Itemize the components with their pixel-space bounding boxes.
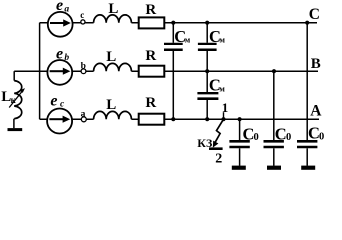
svg-text:C: C — [309, 6, 320, 23]
svg-text:e: e — [56, 46, 63, 63]
inductor L row C — [94, 15, 132, 23]
capacitor Cm C-A vertical top — [172, 23, 174, 43]
terminal 2 bar — [209, 147, 223, 150]
capacitor Cm C-B plates — [198, 43, 217, 45]
junction line B / Cm — [205, 69, 209, 73]
wire phase B row right segment (line B) — [131, 70, 318, 72]
node b terminal — [81, 69, 86, 74]
inductor L row A — [94, 111, 132, 119]
wire Lk to ground — [13, 119, 15, 129]
capacitor C0 phase A vertical — [239, 119, 241, 140]
capacitor Cm B-A vertical bottom — [206, 100, 208, 119]
capacitor C0 phase B vertical (from line B) — [273, 71, 275, 140]
wire to Lk — [13, 71, 15, 80]
wire phase A row right segment (line A) — [131, 118, 319, 120]
wire neutral vertical — [39, 23, 41, 120]
junction line A / Cm1 — [171, 117, 175, 121]
junction line A / C0 — [238, 117, 242, 121]
svg-text:к: к — [11, 95, 17, 105]
capacitor C0 phase A bottom bar — [232, 166, 246, 170]
junction line B / C0 — [272, 69, 276, 73]
svg-text:1: 1 — [222, 100, 229, 115]
svg-text:c: c — [80, 10, 84, 20]
svg-text:e: e — [56, 0, 63, 14]
svg-text:e: e — [50, 93, 57, 110]
junction line C / C0 — [305, 21, 309, 25]
capacitor C0 phase C bottom bar — [301, 166, 315, 170]
capacitor C0 phase C lower wire — [306, 148, 308, 166]
svg-text:0: 0 — [254, 132, 259, 143]
svg-text:b: b — [64, 53, 69, 63]
wire phase C row right segment (line C) — [131, 22, 317, 24]
svg-text:0: 0 — [319, 131, 324, 142]
svg-text:L: L — [106, 49, 116, 65]
svg-text:b: b — [81, 62, 86, 72]
svg-text:A: A — [310, 102, 322, 119]
resistor R row B — [139, 66, 165, 77]
svg-text:B: B — [311, 56, 321, 72]
svg-text:R: R — [145, 48, 156, 64]
capacitor C0 phase B plates — [264, 140, 284, 143]
svg-text:м: м — [185, 36, 191, 45]
lightning bolt KZ — [215, 120, 223, 143]
node a terminal — [81, 117, 86, 122]
capacitor C0 phase B bottom bar — [267, 166, 281, 170]
arrow of variable inductor Lk — [9, 92, 22, 108]
capacitor C0 phase A plates — [229, 140, 249, 143]
wire phase C row left segment — [40, 22, 94, 24]
junction line A / fault — [221, 117, 225, 121]
source ea — [48, 12, 73, 37]
svg-text:L: L — [108, 1, 118, 17]
capacitor Cm B-A plates — [197, 92, 218, 94]
junction line C / Cm1 — [171, 21, 175, 25]
short-circuit point 1 stub — [223, 112, 225, 119]
svg-text:м: м — [220, 36, 226, 45]
inductor Lk coil — [14, 81, 22, 119]
inductor L row B — [94, 63, 132, 71]
junction line C / Cm2 — [205, 21, 209, 25]
resistor R row C — [139, 17, 165, 28]
wire phase B row left segment — [14, 70, 93, 72]
resistor R row A — [139, 114, 165, 125]
svg-text:a: a — [81, 110, 86, 120]
svg-text:a: a — [64, 4, 69, 14]
svg-text:R: R — [145, 2, 156, 18]
svg-text:L: L — [106, 97, 116, 113]
capacitor C0 phase A lower wire — [239, 148, 241, 166]
capacitor Cm C-A plates — [164, 43, 183, 45]
capacitor Cm B-A vertical top — [206, 71, 208, 92]
ground — [8, 128, 23, 131]
capacitor Cm C-A vertical bottom (to line A) — [172, 51, 174, 119]
wire phase A row left segment — [40, 118, 94, 120]
capacitor Cm C-B vertical top — [206, 23, 208, 43]
node c terminal — [81, 20, 85, 24]
svg-text:м: м — [219, 84, 225, 93]
svg-text:КЗ: КЗ — [197, 136, 212, 150]
svg-text:0: 0 — [286, 132, 291, 143]
source ec — [47, 109, 72, 134]
capacitor C0 phase B lower wire — [273, 148, 275, 166]
capacitor C0 phase C plates — [297, 140, 317, 143]
svg-text:C: C — [275, 124, 287, 143]
source eb — [47, 60, 72, 85]
capacitor Cm C-B vertical bottom — [206, 51, 208, 71]
junction line A / Cm3 — [205, 117, 209, 121]
svg-text:2: 2 — [215, 152, 222, 167]
capacitor C0 phase C vertical (from line C) — [306, 23, 308, 141]
svg-text:R: R — [145, 95, 156, 111]
